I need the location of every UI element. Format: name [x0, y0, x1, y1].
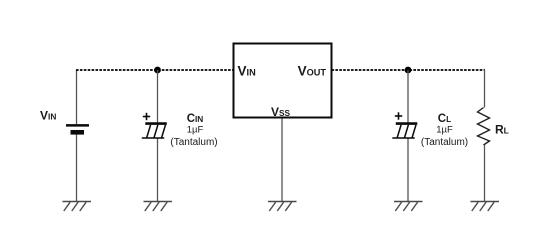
svg-text:VOUT: VOUT — [298, 64, 327, 79]
node: junction dot at C_L — [405, 67, 412, 74]
svg-text:(Tantalum): (Tantalum) — [170, 137, 217, 148]
ground: below VSS — [268, 202, 297, 212]
wire: VSS pin down to ground — [281, 119, 283, 202]
wire: dashed top rail, regulator VOUT to load — [332, 69, 486, 71]
svg-text:RL: RL — [495, 123, 509, 137]
wire: C_L bottom to ground — [407, 139, 409, 202]
svg-text:1µF: 1µF — [436, 125, 453, 136]
svg-text:VIN: VIN — [40, 109, 56, 123]
wire: dashed top rail, battery to regulator VIN pin — [76, 69, 233, 71]
capacitor C_IN polarity plus sign — [143, 113, 150, 120]
ground: below R_L — [471, 202, 500, 212]
capacitor C_IN tantalum symbol — [142, 124, 167, 138]
battery cell symbol (V_IN source) — [66, 125, 89, 132]
resistor R_L zigzag — [478, 108, 490, 146]
ground: below C_IN — [144, 202, 173, 212]
ground: below battery — [63, 202, 92, 212]
wire: C_IN bottom to ground — [157, 139, 159, 202]
wire: junction down to C_IN top — [157, 70, 159, 123]
wire: junction down to C_L top — [407, 70, 409, 123]
svg-text:CL: CL — [438, 113, 451, 125]
capacitor C_L tantalum symbol — [392, 124, 417, 138]
ground: below C_L — [394, 202, 423, 212]
svg-text:(Tantalum): (Tantalum) — [421, 137, 468, 148]
wire: left vertical from top rail to battery V_IN — [76, 70, 78, 124]
wire: R_L bottom to ground — [484, 145, 486, 202]
svg-text:CIN: CIN — [187, 113, 204, 125]
svg-text:VSS: VSS — [271, 105, 291, 119]
wire: top rail end down to R_L — [484, 70, 486, 108]
regulator U1 box — [234, 44, 332, 118]
svg-text:VIN: VIN — [238, 64, 257, 79]
capacitor C_L polarity plus sign — [395, 112, 402, 119]
node: junction dot at C_IN — [154, 67, 161, 74]
svg-text:1µF: 1µF — [187, 125, 204, 136]
wire: battery bottom to ground — [76, 134, 78, 201]
